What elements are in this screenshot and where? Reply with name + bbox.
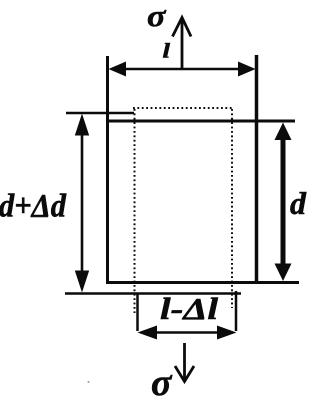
svg-text:d+Δd: d+Δd — [0, 189, 66, 225]
svg-text:σ: σ — [151, 362, 173, 400]
svg-text:d: d — [290, 185, 307, 221]
svg-text:σ: σ — [147, 0, 167, 33]
svg-text:l: l — [163, 39, 171, 63]
svg-text:l-Δl: l-Δl — [160, 291, 218, 326]
